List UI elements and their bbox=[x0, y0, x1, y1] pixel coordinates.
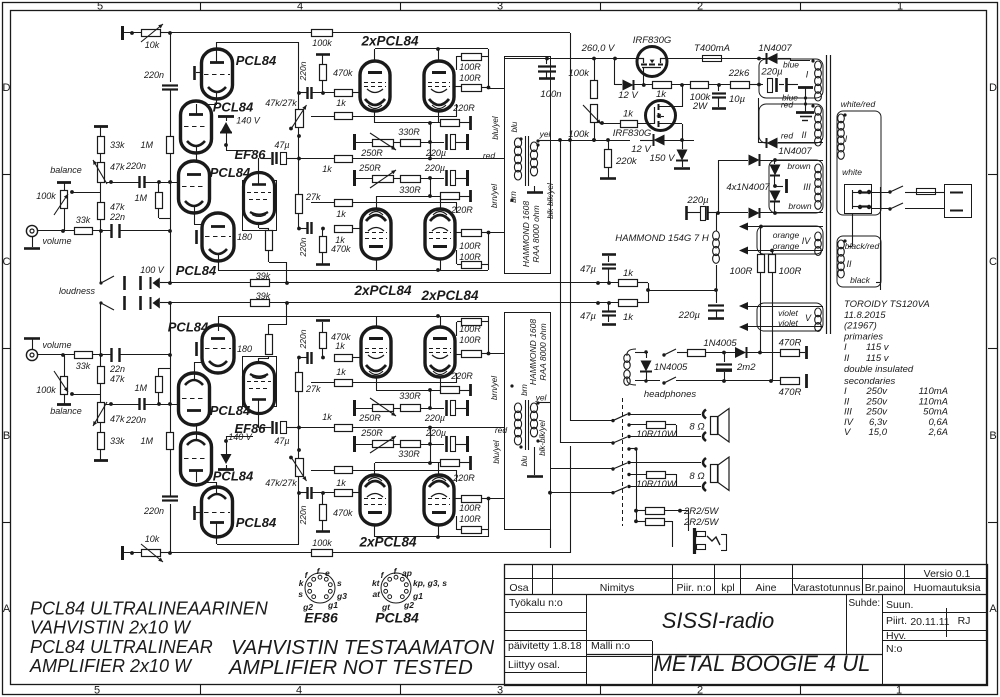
label 47u EF86 upper bbox=[274, 140, 289, 150]
wire bbox=[420, 442, 444, 446]
upper pot 10k bbox=[141, 24, 163, 42]
svg-text:(21967): (21967) bbox=[844, 321, 877, 332]
upper tube EF86 frame bbox=[243, 181, 277, 231]
MOSFET IRF830G Q2 bbox=[646, 101, 683, 141]
svg-text:Osa: Osa bbox=[509, 582, 528, 594]
label 47k bal upper bbox=[110, 162, 125, 172]
upper V2 plate wire bbox=[196, 104, 198, 115]
ground zener bbox=[674, 167, 690, 170]
lower V4 cathode wire bbox=[218, 316, 376, 331]
label yel upper bbox=[539, 129, 552, 139]
wire jack to 33k bbox=[38, 229, 74, 233]
svg-text:220n: 220n bbox=[298, 505, 308, 525]
lower diode 140V bbox=[218, 133, 253, 470]
svg-text:1: 1 bbox=[897, 1, 903, 13]
svg-text:A: A bbox=[3, 603, 11, 615]
label PCL84 V2 upper bbox=[213, 100, 254, 115]
svg-text:100R: 100R bbox=[459, 241, 481, 251]
resistor 22k6 bbox=[731, 82, 750, 89]
svg-text:2W: 2W bbox=[692, 101, 708, 112]
diode 1N4007 (red II) bbox=[759, 98, 824, 149]
svg-text:brn/yel: brn/yel bbox=[490, 184, 499, 208]
resistor 100k 2W bbox=[691, 82, 709, 89]
upper bar bbox=[469, 190, 472, 202]
label PCL84 V1 upper bbox=[236, 53, 277, 68]
mains plug bbox=[945, 185, 972, 218]
label 27k lower bbox=[305, 384, 321, 394]
label 220n bal lower bbox=[125, 415, 146, 425]
lower pot 250R b bbox=[370, 398, 396, 416]
svg-text:II: II bbox=[844, 353, 850, 364]
winding IV wire a bbox=[739, 223, 823, 231]
lower transformer T1 winding right bbox=[530, 403, 537, 437]
resistor 470R (a) bbox=[781, 346, 807, 359]
svg-text:red: red bbox=[781, 100, 794, 110]
wire bbox=[671, 83, 691, 87]
label 100k vol lower bbox=[36, 385, 56, 395]
label 250R b lower bbox=[358, 413, 381, 423]
label 1k reg bbox=[656, 89, 667, 100]
switch spk 2b bbox=[611, 485, 701, 495]
label IV winding bbox=[802, 236, 812, 246]
label red wire upper bbox=[483, 151, 496, 161]
label 220u PSU bbox=[760, 67, 783, 78]
upper capacitor 220n (grid) bbox=[299, 87, 335, 99]
lower volume pot 100k bbox=[54, 355, 101, 405]
svg-text:1k: 1k bbox=[336, 98, 346, 108]
svg-text:brn: brn bbox=[509, 191, 518, 203]
label 2R2/5W a bbox=[683, 506, 719, 517]
svg-text:180: 180 bbox=[237, 344, 252, 354]
svg-text:100R: 100R bbox=[459, 324, 481, 334]
svg-text:EF86: EF86 bbox=[304, 610, 338, 626]
svg-text:IRF830G: IRF830G bbox=[613, 128, 652, 139]
label 2R2/5W b bbox=[683, 517, 719, 528]
label 10k lower bbox=[145, 534, 160, 544]
mains switch b bbox=[890, 203, 903, 209]
diode 1N4007 (top) bbox=[767, 53, 778, 64]
svg-text:g2: g2 bbox=[403, 600, 414, 610]
label PCL84 V3 upper bbox=[210, 165, 251, 180]
label 1k rail b bbox=[623, 312, 634, 323]
wire bbox=[749, 84, 759, 86]
label 47k b lower bbox=[110, 374, 125, 384]
label TOROIDY block bbox=[843, 299, 930, 375]
svg-text:violet: violet bbox=[778, 308, 798, 318]
resistor 2R2/5W (a) bbox=[634, 508, 689, 515]
diode bridge c bbox=[770, 190, 781, 215]
svg-text:100k: 100k bbox=[312, 38, 332, 48]
wire Q2 drain bbox=[682, 85, 684, 107]
wire bbox=[430, 123, 432, 158]
upper V1 cathode wire bbox=[196, 92, 217, 105]
svg-text:2,6A: 2,6A bbox=[927, 427, 948, 438]
svg-text:2xPCL84: 2xPCL84 bbox=[353, 283, 412, 298]
label I winding bbox=[806, 70, 809, 80]
mains wire neutral bbox=[872, 207, 892, 210]
label blu/yel upper bbox=[491, 116, 500, 139]
label 330R b lower bbox=[399, 391, 421, 401]
lower jack ground bbox=[24, 339, 40, 350]
svg-text:blu/yel: blu/yel bbox=[492, 440, 501, 463]
svg-text:250R: 250R bbox=[360, 428, 383, 438]
lower resistor 220R bbox=[441, 460, 471, 467]
mains fuse bbox=[917, 189, 937, 195]
lower resistor 100R a bbox=[454, 499, 488, 534]
svg-text:black: black bbox=[850, 275, 871, 285]
label brown a bbox=[787, 161, 810, 171]
upper diode 100V bbox=[151, 277, 172, 289]
label HAMMOND 1608 lower bbox=[528, 319, 538, 385]
svg-text:10k: 10k bbox=[145, 40, 160, 50]
svg-text:red: red bbox=[483, 151, 496, 161]
label 47k/27k upper bbox=[265, 98, 297, 108]
label violet b bbox=[778, 318, 798, 328]
svg-text:IRF830G: IRF830G bbox=[633, 35, 672, 46]
resistor 10R/10W (1) bbox=[627, 422, 676, 437]
svg-text:8 Ω: 8 Ω bbox=[689, 422, 704, 433]
svg-text:47k: 47k bbox=[110, 202, 125, 212]
upper tube V1 PCL84 (triode) bbox=[202, 49, 233, 99]
lower 2xPCL84 output tube A bbox=[360, 475, 390, 525]
bridge cap bar bbox=[775, 179, 787, 193]
upper plate rail bbox=[375, 47, 506, 89]
speaker feed wire c bbox=[548, 491, 613, 548]
lower yel wire bbox=[536, 401, 550, 404]
label 47k b upper bbox=[110, 202, 125, 212]
label PCL84 V2 lower bbox=[213, 469, 254, 484]
label 22k6 bbox=[728, 68, 750, 79]
wire B+ node bbox=[646, 283, 718, 303]
label 1M b lower bbox=[134, 383, 147, 393]
lower capacitor 220n (coupling) bbox=[140, 398, 145, 410]
svg-text:220R: 220R bbox=[452, 473, 475, 483]
svg-text:4: 4 bbox=[296, 685, 302, 697]
lower V2 plate wire bbox=[196, 471, 198, 482]
upper ground bar (470k) bbox=[316, 54, 330, 65]
diode 1N4005 (series) bbox=[735, 347, 781, 358]
upper bar bbox=[466, 134, 469, 150]
svg-text:10k: 10k bbox=[145, 534, 160, 544]
label 33k b lower bbox=[76, 361, 91, 371]
PSU transformer winding V bbox=[815, 308, 822, 331]
wire rail bbox=[665, 58, 702, 60]
label red wire lower bbox=[495, 425, 508, 435]
capacitor 220u (choke top) bbox=[687, 206, 719, 221]
upper resistor 33k (series input) bbox=[75, 228, 93, 235]
lower bar bbox=[466, 400, 469, 416]
wire 33k to 22n bbox=[92, 229, 111, 233]
label 47k/27k lower bbox=[265, 478, 297, 488]
lower plate rail low bbox=[376, 314, 505, 355]
label 220n bal upper bbox=[125, 161, 146, 171]
wire bbox=[100, 303, 102, 367]
svg-text:VAHVISTIN 2x10 W: VAHVISTIN 2x10 W bbox=[30, 618, 192, 638]
lower resistor 100R c bbox=[454, 351, 488, 358]
mains switch a bbox=[890, 186, 903, 192]
upper capacitor 220n (coupling) bbox=[140, 176, 145, 188]
label 4x1N4007 bbox=[726, 182, 770, 193]
svg-text:22k6: 22k6 bbox=[728, 68, 750, 79]
PSU transformer winding IV bbox=[815, 232, 822, 255]
svg-text:3: 3 bbox=[497, 685, 503, 697]
speaker 2 bbox=[703, 457, 729, 491]
label 220R a upper bbox=[452, 103, 475, 113]
wire bbox=[100, 183, 102, 203]
lower V2 cathode wire bbox=[196, 423, 198, 440]
svg-text:blu: blu bbox=[520, 455, 529, 466]
upper resistor 470k b bbox=[320, 227, 327, 253]
svg-text:A: A bbox=[989, 603, 997, 615]
label PCL84 V4 lower bbox=[168, 320, 209, 335]
lower 2xPCL84 output tube B bbox=[424, 475, 454, 525]
label 220n rot b upper bbox=[298, 237, 308, 257]
label blue/red bbox=[781, 93, 798, 110]
lower resistor 330R b bbox=[401, 405, 421, 412]
svg-text:PCL84: PCL84 bbox=[213, 469, 254, 484]
winding I center tap bar bbox=[798, 88, 813, 113]
svg-text:kp, g3, s: kp, g3, s bbox=[413, 578, 447, 588]
upper resistor 100R b bbox=[457, 56, 489, 92]
svg-text:EF86: EF86 bbox=[234, 147, 266, 162]
svg-text:4: 4 bbox=[297, 1, 303, 13]
lower transformer ground bbox=[527, 447, 543, 477]
svg-text:HAMMOND 1608: HAMMOND 1608 bbox=[521, 201, 531, 267]
lower loudness capacitor plate b bbox=[139, 296, 142, 310]
svg-text:100k: 100k bbox=[36, 385, 56, 395]
trimmer 100k bbox=[583, 105, 604, 125]
wire rail end bbox=[637, 302, 648, 304]
jack wires bbox=[673, 511, 689, 547]
label 100R c upper bbox=[459, 241, 481, 251]
label 220u choke bbox=[686, 195, 709, 206]
diode bridge d bbox=[710, 208, 823, 219]
upper transformer dots bbox=[510, 137, 539, 201]
svg-text:C: C bbox=[989, 256, 997, 268]
svg-text:470R: 470R bbox=[779, 338, 802, 349]
svg-text:220n: 220n bbox=[125, 161, 146, 171]
upper resistor 100R d bbox=[457, 250, 489, 269]
svg-text:20.11.11: 20.11.11 bbox=[910, 616, 949, 628]
mains wire live bbox=[872, 190, 892, 193]
winding V wire b bbox=[739, 323, 823, 331]
svg-text:RAA 8000 ohm: RAA 8000 ohm bbox=[538, 323, 548, 380]
text PCL84 ULTRALINEAR block bbox=[29, 599, 269, 677]
upper EF86 cathode wire bbox=[259, 224, 270, 230]
winding IV wire b bbox=[739, 247, 823, 255]
label HAMMOND 154G bbox=[615, 233, 709, 244]
label 12V a bbox=[618, 90, 639, 101]
title block texts bbox=[508, 568, 981, 671]
svg-text:I: I bbox=[844, 342, 847, 353]
lower wire top bus x170 bbox=[170, 504, 172, 553]
ground 10u bbox=[712, 107, 726, 110]
lower V1 plate wire bbox=[217, 523, 300, 545]
lower transformer dots bbox=[510, 384, 539, 448]
lower rail wire bbox=[170, 301, 289, 305]
svg-text:kpl: kpl bbox=[721, 582, 734, 594]
svg-text:100k: 100k bbox=[568, 68, 590, 79]
label 1k gridA lower bbox=[336, 478, 346, 488]
switch spk 2a bbox=[611, 461, 701, 471]
svg-text:1N4007: 1N4007 bbox=[778, 146, 812, 157]
upper resistor 1M bbox=[167, 137, 174, 154]
svg-text:2xPCL84: 2xPCL84 bbox=[360, 34, 419, 49]
svg-text:C: C bbox=[3, 256, 11, 268]
label 10k upper bbox=[145, 40, 160, 50]
svg-text:47µ: 47µ bbox=[580, 264, 597, 275]
label 100k rail upper bbox=[312, 38, 332, 48]
lower diode 100V bbox=[151, 297, 172, 309]
wire bbox=[393, 408, 400, 410]
lower V1 grid bar bbox=[195, 506, 203, 520]
resistor 2R2/5W (b) bbox=[634, 519, 672, 526]
wire rail to transformer bbox=[333, 446, 571, 553]
label 100R heater a bbox=[730, 266, 753, 277]
svg-text:blu: blu bbox=[510, 121, 519, 132]
lower resistor 27k bbox=[296, 373, 303, 392]
lower cathode wires bbox=[375, 461, 442, 475]
mains connector bbox=[845, 185, 872, 214]
upper V1 plate wire bbox=[217, 42, 300, 63]
wire 22n to bus bbox=[119, 353, 172, 357]
svg-text:330R: 330R bbox=[399, 185, 421, 195]
svg-text:39k: 39k bbox=[256, 271, 271, 281]
label 220u a upper bbox=[425, 148, 446, 158]
upper capacitor 220u bbox=[447, 134, 468, 150]
upper resistor 1M (grid leak) bbox=[156, 182, 171, 219]
svg-text:22n: 22n bbox=[109, 212, 125, 222]
label balance lower bbox=[50, 406, 82, 416]
lower 2xPCL84 output tube D bbox=[425, 327, 455, 377]
PSU transformer winding III bbox=[815, 164, 822, 209]
label 47u EF86 lower bbox=[274, 436, 289, 446]
svg-text:s: s bbox=[337, 578, 342, 588]
resistor 1k (gate) bbox=[602, 121, 655, 128]
svg-text:4x1N4007: 4x1N4007 bbox=[726, 182, 770, 193]
svg-text:Liittyy osal.: Liittyy osal. bbox=[508, 659, 560, 671]
upper pot 250R b bbox=[370, 170, 396, 188]
capacitor 10u bbox=[712, 85, 726, 107]
label 330R a lower bbox=[398, 449, 420, 459]
capacitor 220u (PSU main) bbox=[757, 78, 798, 93]
label T400mA bbox=[694, 43, 730, 54]
wire to grid bbox=[145, 402, 181, 406]
label 1k gridC upper bbox=[336, 209, 346, 219]
svg-text:220µ: 220µ bbox=[760, 67, 783, 78]
lower capacitor 220n (grid) bbox=[299, 487, 335, 499]
upper capacitor 220n (grid2) bbox=[299, 222, 312, 234]
lower bar bbox=[466, 436, 469, 452]
wire 47u to 1k bbox=[299, 158, 335, 160]
wire bbox=[297, 213, 301, 230]
choke HAMMOND 154G bbox=[713, 213, 720, 290]
svg-text:27k: 27k bbox=[305, 384, 321, 394]
wire bbox=[353, 92, 360, 94]
lower bar (bias2) bbox=[354, 400, 372, 416]
lower capacitor 220u bbox=[447, 436, 468, 452]
lower resistor 100k (rail) bbox=[312, 550, 333, 557]
svg-text:15,0: 15,0 bbox=[869, 427, 888, 438]
svg-text:blu/yel: blu/yel bbox=[491, 116, 500, 139]
wire bbox=[170, 90, 172, 137]
capacitor 220u (B+ out) bbox=[708, 290, 724, 319]
label 470k a upper bbox=[333, 68, 353, 78]
lower resistor 33k (balance top) bbox=[98, 433, 105, 461]
label volume lower bbox=[42, 340, 71, 350]
svg-text:Piir. n:o: Piir. n:o bbox=[676, 582, 711, 594]
lower resistor 1k (rail) bbox=[619, 300, 638, 307]
label 470R b bbox=[779, 387, 802, 398]
upper tube V2 PCL84 (triode) bbox=[181, 101, 212, 153]
svg-text:220µ: 220µ bbox=[678, 310, 701, 321]
svg-text:330R: 330R bbox=[398, 127, 420, 137]
svg-text:220µ: 220µ bbox=[424, 163, 445, 173]
svg-text:volume: volume bbox=[42, 236, 71, 246]
speaker bus wires bbox=[627, 447, 637, 521]
diode 12V a bbox=[615, 58, 655, 91]
resistor 100R (heater b) bbox=[769, 250, 776, 283]
label 1N4005 series bbox=[703, 338, 737, 349]
svg-text:47µ: 47µ bbox=[580, 311, 597, 322]
svg-text:115 v: 115 v bbox=[866, 353, 890, 364]
label loudness bbox=[59, 286, 96, 296]
label brn/yel lower bbox=[490, 376, 499, 400]
upper 2xPCL84 output tube C bbox=[361, 209, 391, 259]
hp switch b bbox=[662, 377, 781, 385]
svg-text:Br.paino: Br.paino bbox=[865, 582, 904, 594]
label 1k gridD lower bbox=[335, 341, 345, 351]
wire reg bbox=[592, 122, 596, 142]
svg-text:II: II bbox=[801, 130, 807, 140]
label 39k lower bbox=[256, 291, 271, 301]
svg-text:RAA 8000 ohm: RAA 8000 ohm bbox=[531, 205, 541, 262]
label blk-blk/yel upper bbox=[546, 183, 555, 219]
lower resistor 470k bbox=[320, 505, 327, 521]
label 10u bbox=[729, 94, 746, 105]
svg-text:Nimitys: Nimitys bbox=[600, 582, 634, 594]
wire bbox=[321, 81, 325, 95]
lower balance pot 47k bbox=[93, 402, 107, 426]
upper resistor 470k bbox=[320, 65, 327, 81]
resistor 100k (reg top) bbox=[591, 81, 598, 99]
svg-text:27k: 27k bbox=[305, 192, 321, 202]
MOSFET IRF830G Q1 bbox=[637, 47, 667, 86]
label 2xPCL84 mid upper bbox=[353, 283, 412, 298]
wire bbox=[709, 83, 730, 87]
svg-text:33k: 33k bbox=[76, 215, 91, 225]
label 33k a upper bbox=[110, 140, 125, 150]
svg-text:470R: 470R bbox=[779, 387, 802, 398]
label 470R a bbox=[779, 338, 802, 349]
upper resistor 1k (grid C) bbox=[335, 226, 362, 233]
svg-text:1k: 1k bbox=[656, 89, 667, 100]
svg-text:Piirt.: Piirt. bbox=[886, 615, 907, 627]
label 220R b upper bbox=[450, 205, 473, 215]
lower resistor 47k bbox=[98, 367, 105, 384]
upper loudness capacitor plate bbox=[123, 276, 126, 290]
label 100R a upper bbox=[459, 62, 481, 72]
svg-text:100R: 100R bbox=[459, 252, 481, 262]
label brown b bbox=[788, 201, 811, 211]
label 220k bbox=[615, 156, 638, 167]
label black/red bbox=[845, 241, 880, 251]
svg-text:10R/10W: 10R/10W bbox=[636, 429, 677, 440]
lower tube V1 PCL84 (triode) bbox=[202, 487, 233, 537]
svg-text:220n: 220n bbox=[125, 415, 146, 425]
label RAA 8000 ohm lower bbox=[538, 323, 548, 380]
svg-text:black/red: black/red bbox=[845, 241, 880, 251]
